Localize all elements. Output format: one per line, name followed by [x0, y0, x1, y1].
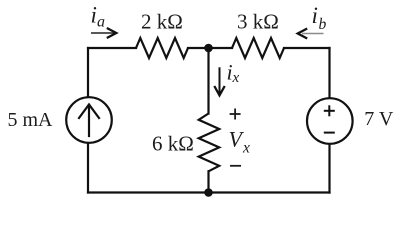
- arrow i_b (gray shaft): [298, 29, 324, 39]
- wire middle vertical lower: [207, 171, 209, 192]
- svg-text:i: i: [312, 3, 318, 28]
- svg-text:a: a: [97, 14, 105, 31]
- resistor R 2 kOhm: [136, 38, 188, 58]
- label Vx minus: [230, 165, 241, 167]
- svg-text:7 V: 7 V: [364, 108, 394, 130]
- wire top-right (3k to corner): [284, 47, 330, 49]
- voltage source minus sign: [324, 132, 335, 134]
- wire top-left horizontal (node to 2k): [88, 47, 136, 49]
- node B (bottom): [204, 188, 213, 197]
- wire top middle (2k to 3k across node): [188, 47, 232, 49]
- svg-text:b: b: [319, 16, 327, 33]
- voltage source V1 circle (7 V): [307, 98, 353, 144]
- svg-text:6 kΩ: 6 kΩ: [152, 132, 194, 156]
- wire left vertical upper: [87, 48, 89, 97]
- wire right vertical lower: [328, 145, 330, 193]
- svg-text:3 kΩ: 3 kΩ: [237, 10, 279, 34]
- svg-text:i: i: [91, 2, 97, 27]
- resistor R 6 kOhm (vertical): [199, 114, 220, 172]
- wire left vertical lower: [87, 144, 89, 193]
- label Vx plus: [230, 109, 241, 120]
- resistor R 3 kOhm: [232, 38, 284, 58]
- current source arrow: [88, 105, 90, 136]
- svg-text:2 kΩ: 2 kΩ: [141, 10, 183, 34]
- svg-text:x: x: [232, 70, 240, 86]
- node A (top): [204, 44, 213, 53]
- svg-text:5 mA: 5 mA: [8, 109, 54, 131]
- arrow i_a: [91, 28, 116, 38]
- wire right vertical upper: [328, 48, 330, 98]
- wire bottom horizontal: [88, 191, 330, 193]
- arrow i_x (downward): [214, 67, 224, 95]
- svg-text:x: x: [242, 139, 250, 156]
- voltage source plus sign: [324, 105, 335, 132]
- wire middle vertical upper: [207, 48, 209, 114]
- current source I1 circle (5 mA): [66, 97, 112, 143]
